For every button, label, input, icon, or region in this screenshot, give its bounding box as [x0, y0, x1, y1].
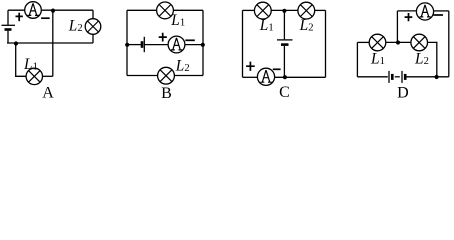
wire top-left to ammeter: [8, 9, 25, 11]
node dot left: [125, 43, 129, 47]
wire ammeter branch top left: [397, 10, 416, 12]
battery cell 1 short plate: [391, 74, 394, 80]
wire bottom right segment: [275, 76, 326, 78]
lamp L2: [298, 2, 315, 19]
wire top left segment: [127, 9, 157, 11]
wire top right segment: [173, 9, 203, 11]
ammeter U-A letter A: [28, 3, 39, 15]
svg-text:1: 1: [33, 61, 38, 72]
svg-text:2: 2: [424, 56, 429, 67]
svg-text:C: C: [279, 84, 290, 101]
battery cell short plate: [281, 43, 289, 46]
svg-text:1: 1: [268, 22, 273, 33]
wire ammeter to top-right corner: [41, 9, 93, 11]
battery cell 1 long plate: [388, 71, 390, 83]
wire bottom right: [407, 76, 449, 78]
lamp L2: [85, 19, 101, 35]
minus terminal label: [273, 68, 281, 70]
svg-text:L: L: [259, 17, 269, 34]
svg-text:L: L: [68, 18, 78, 35]
wire left below battery: [7, 31, 9, 43]
lamp L1: [26, 68, 42, 84]
minus terminal label: [434, 14, 444, 16]
wire middle vertical: [52, 10, 54, 76]
wire bottom right segment: [174, 75, 203, 77]
wire battery to ammeter: [144, 44, 168, 46]
node dot middle: [396, 40, 400, 44]
wire lamps row left: [357, 41, 369, 43]
wire between lamps: [386, 41, 411, 43]
lamp L1: [369, 34, 386, 51]
battery cell long plate: [143, 37, 145, 52]
wire inner loop left: [16, 44, 26, 77]
wire right side: [325, 10, 327, 77]
svg-text:L: L: [370, 51, 380, 68]
wire ammeter branch top right: [434, 10, 449, 12]
wire inner loop right: [43, 75, 53, 77]
wire bottom: [7, 42, 93, 44]
svg-text:1: 1: [180, 18, 185, 29]
svg-text:2: 2: [77, 23, 82, 34]
wire top left segment: [243, 9, 255, 11]
wire bottom left segment: [243, 76, 258, 78]
svg-text:1: 1: [380, 56, 385, 67]
ammeter U-C circle: [257, 68, 274, 85]
wire bottom left segment: [127, 75, 158, 77]
svg-text:D: D: [397, 85, 409, 102]
svg-text:L: L: [23, 56, 33, 73]
wire right side lower: [92, 34, 94, 43]
ammeter U-D circle: [416, 3, 433, 20]
plus terminal label: [246, 62, 255, 71]
wire middle lower: [283, 46, 285, 77]
plus terminal label: [405, 13, 413, 21]
minus terminal label: [41, 17, 50, 19]
battery cell 2 long plate: [401, 71, 403, 83]
svg-text:B: B: [161, 85, 172, 102]
wire ammeter branch vertical: [396, 11, 398, 43]
wire left side: [242, 10, 244, 77]
wire middle upper: [283, 11, 285, 40]
wire left side: [126, 10, 128, 75]
battery cell short plate: [141, 41, 144, 48]
svg-text:2: 2: [308, 22, 313, 33]
wire top right segment: [315, 9, 326, 11]
wire left above battery: [7, 10, 9, 25]
svg-text:L: L: [414, 51, 424, 68]
plus terminal label: [16, 13, 23, 21]
ammeter U-D letter A: [420, 5, 431, 17]
lamp L2: [411, 34, 428, 51]
node dot right: [201, 43, 205, 47]
wire left side: [356, 42, 358, 76]
battery inter-cell dash: [395, 76, 400, 78]
lamp L1: [254, 2, 271, 19]
battery cell 2 short plate: [404, 74, 407, 80]
wire between lamps: [271, 9, 298, 11]
wire right side: [202, 10, 204, 75]
ammeter U-A circle: [25, 2, 42, 19]
ammeter U-B circle: [168, 36, 185, 53]
node dot bottom: [283, 75, 287, 79]
lamp L2: [158, 67, 175, 84]
battery cell long plate: [277, 39, 293, 41]
battery cell short plate: [5, 28, 12, 31]
plus terminal label: [159, 33, 167, 42]
svg-text:A: A: [42, 85, 54, 102]
svg-text:L: L: [170, 12, 180, 29]
node dot top: [282, 9, 286, 13]
wire lamps row right + down: [428, 42, 437, 77]
ammeter U-C letter A: [261, 70, 272, 82]
wire bottom left: [357, 76, 387, 78]
wire right side: [448, 11, 450, 77]
svg-text:2: 2: [184, 63, 189, 74]
wire right side upper: [92, 10, 94, 19]
node dot bottom: [435, 75, 439, 79]
svg-text:L: L: [175, 57, 185, 74]
minus terminal label: [185, 39, 195, 41]
battery cell long plate: [2, 24, 16, 26]
node junction dot bottom: [14, 41, 18, 45]
lamp L1: [157, 2, 174, 19]
svg-text:L: L: [299, 17, 309, 34]
wire ammeter to right: [185, 44, 203, 46]
wire middle to battery: [127, 44, 141, 46]
ammeter U-B letter A: [171, 38, 182, 50]
node junction dot top: [51, 9, 55, 13]
